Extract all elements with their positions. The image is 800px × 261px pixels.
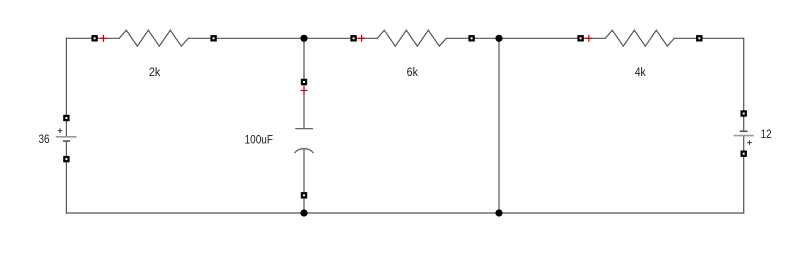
svg-text:12: 12 — [761, 127, 772, 141]
svg-text:2k: 2k — [149, 65, 161, 79]
svg-text:4k: 4k — [635, 65, 647, 79]
svg-text:6k: 6k — [407, 65, 419, 79]
svg-text:100uF: 100uF — [245, 132, 273, 146]
svg-text:36: 36 — [38, 132, 49, 146]
